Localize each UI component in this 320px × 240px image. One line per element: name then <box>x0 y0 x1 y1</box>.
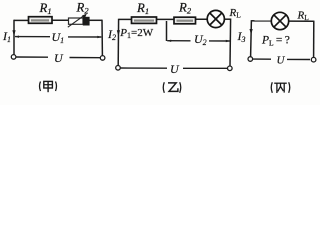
svg-text:U: U <box>277 54 286 66</box>
rheostat R2 (jia): box <box>69 18 84 24</box>
wire: left side vertical <box>13 20 15 55</box>
wire: top side segments (bing) <box>251 20 271 22</box>
terminal circle bottom-right (yi) <box>228 66 233 71</box>
resistor R2 (yi) <box>174 17 196 24</box>
current arrow I1 on left wire <box>12 30 15 36</box>
source line U, left segment <box>16 56 48 58</box>
terminal circle bottom-left (jia) <box>11 55 16 60</box>
terminal circle bottom-right (jia) <box>100 56 105 61</box>
terminal circle bottom-left (bing) <box>248 57 253 62</box>
wire: left side vertical (yi) <box>117 19 119 66</box>
node tick below R1-R2 junction <box>166 21 168 41</box>
caption (jia) <box>40 81 57 92</box>
voltage U1 arrow line, left part <box>15 36 50 38</box>
svg-text:U: U <box>170 62 180 76</box>
terminal circle bottom-right (bing) <box>311 57 316 62</box>
source line U (yi), left segment <box>121 67 168 69</box>
wire: top side middle segment <box>52 19 70 21</box>
voltage U2 arrow line, right part <box>209 40 230 42</box>
svg-text:PL = ?: PL = ? <box>261 35 290 48</box>
svg-text:P1=2W: P1=2W <box>119 27 153 40</box>
wire: top side left segment <box>14 19 29 21</box>
wire: top side segments <box>119 18 132 20</box>
wire: top side right segment <box>89 19 102 21</box>
resistor R1 (jia) <box>29 17 53 24</box>
rheostat R2 (jia): dark contact block <box>83 17 90 26</box>
voltage U1 arrow line, right part <box>68 36 101 38</box>
wire: left side vertical (bing) <box>250 20 253 57</box>
source line U, right segment <box>70 57 101 59</box>
caption (yi) <box>163 82 181 93</box>
source line U (bing), left segment <box>253 58 271 60</box>
terminal circle bottom-left (yi) <box>116 66 121 71</box>
resistor R1 (yi) <box>132 17 157 23</box>
rheostat R2 (jia): wiper arrow <box>68 15 85 27</box>
source line U (bing), right segment <box>287 58 310 60</box>
source line U (yi), right segment <box>183 67 227 69</box>
current arrow I2 on left wire <box>117 30 120 36</box>
wire: right side vertical (yi) <box>229 19 232 67</box>
wire: right side vertical (bing) <box>313 21 315 58</box>
svg-text:U: U <box>54 51 64 65</box>
current arrow I3 on left wire <box>250 29 253 35</box>
lamp RL (yi) <box>207 10 224 27</box>
voltage U2 arrow line, left part <box>167 40 190 42</box>
caption (bing) <box>271 82 290 93</box>
lamp RL (bing) <box>271 12 288 29</box>
wire: right side vertical <box>101 20 103 56</box>
